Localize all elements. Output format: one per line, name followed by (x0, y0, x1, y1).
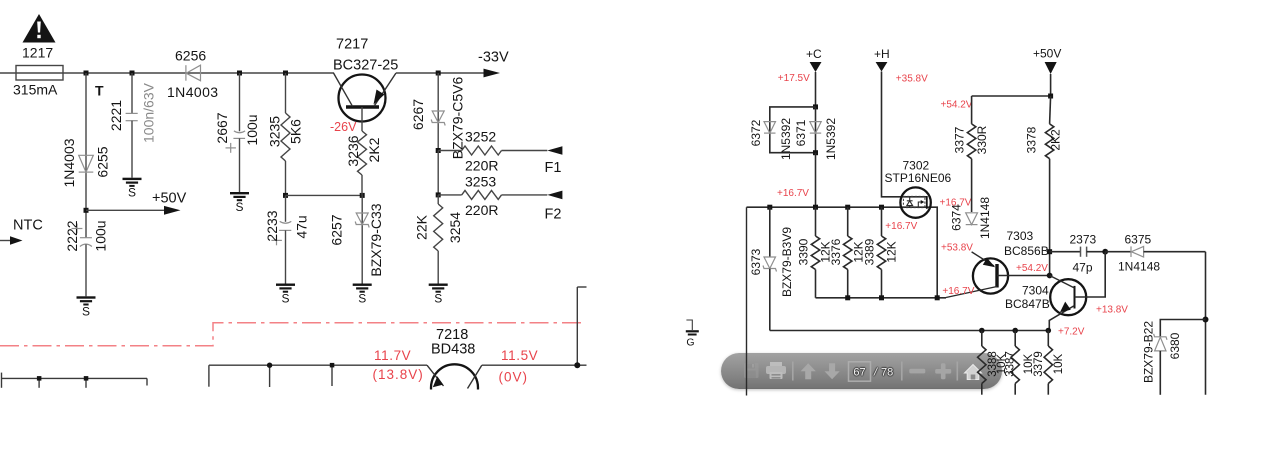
resistor 3378 2K2 (1050, 96, 1051, 124)
save icon (disabled) (744, 363, 759, 378)
wire +16.7V bus (747, 206, 927, 208)
resistor 3390 12K (815, 207, 817, 236)
svg-text:F2: F2 (545, 207, 562, 223)
svg-text:2222: 2222 (64, 220, 80, 251)
svg-text:S: S (358, 292, 366, 306)
svg-text:6374: 6374 (950, 204, 964, 231)
svg-text:22K: 22K (413, 214, 429, 240)
svg-text:-33V: -33V (478, 50, 509, 66)
svg-text:F1: F1 (545, 160, 562, 176)
diode 6375 1N4148 (1105, 251, 1131, 253)
wire +7.2V bus (770, 330, 1050, 332)
svg-text:3252: 3252 (465, 129, 496, 145)
capacitor 2222 100u (80, 237, 92, 239)
svg-text:3236: 3236 (345, 135, 361, 166)
capacitor 2373 47p (1047, 249, 1052, 254)
svg-text:3377: 3377 (953, 126, 967, 153)
svg-text:2233: 2233 (264, 210, 280, 241)
svg-text:220R: 220R (465, 158, 498, 174)
svg-text:100n/63V: 100n/63V (141, 82, 157, 143)
svg-text:2221: 2221 (108, 100, 124, 131)
separator (957, 362, 959, 381)
separator (901, 362, 903, 381)
svg-text:10K: 10K (1053, 353, 1065, 374)
svg-text:12K: 12K (885, 241, 899, 262)
svg-text:100u: 100u (92, 220, 108, 251)
svg-text:G: G (686, 337, 694, 349)
svg-text:330R: 330R (975, 125, 989, 154)
svg-text:+17.5V: +17.5V (778, 73, 810, 84)
print icon (766, 362, 786, 379)
ground S (3254) (429, 284, 448, 286)
svg-text:S: S (82, 304, 90, 318)
svg-text:S: S (281, 292, 289, 306)
node F1 wire (436, 148, 441, 153)
page down arrow (825, 363, 840, 379)
node: rail junctions (84, 71, 89, 76)
zener diode 6257 BZX79-C33 (361, 195, 363, 283)
svg-text:6372: 6372 (749, 119, 763, 146)
svg-text:3378: 3378 (1025, 126, 1039, 153)
wire +C to bus (815, 153, 817, 208)
ground S (2233) (276, 284, 295, 286)
svg-text:2K2: 2K2 (1049, 129, 1063, 151)
resistor 3388 10K (981, 331, 983, 347)
wire +54.2V (972, 95, 1051, 97)
svg-text:47p: 47p (1073, 261, 1093, 275)
svg-text:BZX79-C33: BZX79-C33 (368, 203, 384, 276)
svg-text:100u: 100u (244, 114, 260, 145)
svg-text:1217: 1217 (22, 45, 53, 61)
svg-text:1N4003: 1N4003 (61, 138, 77, 187)
svg-text:7304: 7304 (1022, 284, 1049, 298)
page number box (849, 362, 871, 381)
svg-text:11.5V: 11.5V (501, 348, 538, 363)
node +50V (84, 208, 89, 213)
wire 6255 branch (85, 73, 87, 238)
svg-text:BC856B: BC856B (1004, 244, 1049, 258)
svg-text:(0V): (0V) (499, 370, 529, 385)
wire 2222 to ground (85, 245, 87, 297)
svg-text:7217: 7217 (336, 37, 368, 53)
wire +16.7V lower node (816, 297, 947, 299)
svg-text:(13.8V): (13.8V) (373, 367, 424, 382)
svg-text:BZX79-B3V9: BZX79-B3V9 (780, 227, 794, 297)
diodes 6372/6371 1N5392 parallel (813, 104, 818, 109)
svg-text:+C: +C (806, 47, 822, 61)
wire 7218 left (209, 287, 587, 387)
capacitor 2667 100u (239, 73, 241, 131)
svg-text:7303: 7303 (1007, 229, 1034, 243)
svg-text:1N4148: 1N4148 (978, 197, 992, 239)
svg-text:S: S (434, 292, 442, 306)
svg-text:6371: 6371 (794, 119, 808, 146)
svg-text:1N5392: 1N5392 (824, 118, 838, 160)
home / acrobat icon (965, 365, 982, 380)
svg-text:11.7V: 11.7V (374, 348, 411, 363)
svg-text:+16.7V: +16.7V (777, 188, 809, 199)
node F2 wire (437, 151, 439, 195)
svg-text:3387: 3387 (1005, 351, 1017, 377)
resistor 3236 2K2 (361, 107, 363, 131)
zoom in (plus) (935, 369, 951, 374)
diode 6374 1N4148 (966, 213, 978, 225)
svg-text:-26V: -26V (330, 120, 357, 134)
wire 7303 base (997, 275, 1050, 277)
wire right drop (1205, 252, 1207, 395)
svg-text:NTC: NTC (13, 218, 43, 234)
PDF viewer floating toolbar (721, 353, 1002, 389)
svg-text:6255: 6255 (94, 146, 110, 177)
svg-text:2K2: 2K2 (366, 137, 382, 162)
svg-text:3390: 3390 (797, 238, 811, 265)
resistor 3376 12K (847, 207, 849, 236)
wire left drop (746, 207, 748, 395)
svg-text:+13.8V: +13.8V (1096, 305, 1128, 316)
svg-text:6267: 6267 (410, 99, 426, 130)
svg-text:1N5392: 1N5392 (779, 118, 793, 160)
warning symbol (23, 14, 56, 43)
svg-text:+H: +H (874, 47, 890, 61)
svg-text:+50V: +50V (152, 191, 187, 207)
resistor 3377 330R (971, 96, 973, 124)
svg-text:2373: 2373 (1070, 233, 1097, 247)
resistor 3379 10K (1047, 331, 1049, 347)
resistor 3387 10K (1014, 331, 1016, 347)
svg-text:6380: 6380 (1168, 332, 1182, 359)
resistor 3252 220R (462, 146, 502, 155)
svg-text:+35.8V: +35.8V (896, 74, 928, 85)
svg-text:+16.7V: +16.7V (885, 221, 917, 232)
ground G (686, 320, 692, 330)
svg-text:3376: 3376 (829, 238, 843, 265)
page up arrow (801, 363, 816, 379)
ground S (2222) (77, 296, 96, 298)
diode 6255 1N4003 (79, 155, 94, 172)
zener diode 6373 BZX79-B3V9 (769, 207, 771, 257)
ground S (6257) (353, 284, 372, 286)
svg-text:+50V: +50V (1033, 47, 1061, 61)
svg-text:BZX79-B22: BZX79-B22 (1142, 321, 1156, 383)
svg-text:3254: 3254 (447, 212, 463, 243)
svg-text:BC327-25: BC327-25 (333, 58, 398, 74)
svg-text:1N4148: 1N4148 (1118, 260, 1160, 274)
svg-text:T: T (95, 83, 104, 99)
svg-text:6373: 6373 (749, 248, 763, 275)
svg-text:3235: 3235 (266, 116, 282, 147)
svg-text:+7.2V: +7.2V (1058, 327, 1085, 338)
svg-text:220R: 220R (465, 202, 498, 218)
zoom out (minus) (909, 369, 925, 374)
separator (792, 362, 794, 381)
resistor 3235 5K6 (285, 73, 287, 113)
svg-text:+54.2V: +54.2V (941, 100, 973, 111)
node (283, 193, 288, 198)
svg-text:+16.7V: +16.7V (942, 286, 974, 297)
svg-text:1N4003: 1N4003 (167, 84, 218, 100)
svg-text:6375: 6375 (1125, 233, 1152, 247)
svg-text:S: S (235, 200, 243, 214)
wire to -33V (396, 72, 484, 74)
svg-text:6256: 6256 (175, 48, 206, 64)
capacitor 2233 47u (285, 195, 287, 221)
ground S (2221) (123, 178, 142, 180)
svg-text:2667: 2667 (214, 112, 230, 143)
resistor 3254 22K (437, 195, 439, 204)
wire node 3235/3236 (286, 194, 363, 196)
svg-text:47u: 47u (293, 215, 309, 238)
svg-text:+54.2V: +54.2V (1016, 263, 1048, 274)
7304 emitter (1049, 306, 1074, 331)
wire bottom-left bus (2, 373, 148, 388)
wire 7304 collector (1075, 252, 1106, 297)
svg-text:S: S (128, 186, 136, 200)
svg-text:6257: 6257 (328, 214, 344, 245)
svg-text:BZX79-C5V6: BZX79-C5V6 (449, 77, 465, 160)
capacitor 2221 100n/63V (131, 73, 133, 113)
svg-text:BD438: BD438 (431, 342, 475, 358)
svg-text:5K6: 5K6 (287, 119, 303, 144)
resistor 3389 12K (881, 207, 883, 236)
svg-text:315mA: 315mA (13, 82, 58, 98)
svg-text:BC847B: BC847B (1005, 297, 1050, 311)
svg-text:STP16NE06: STP16NE06 (885, 171, 952, 185)
svg-text:3379: 3379 (1033, 351, 1045, 377)
zener diode 6267 BZX79-C5V6 (437, 73, 439, 151)
red page-boundary dash-dot line (0, 323, 584, 346)
svg-text:3389: 3389 (863, 238, 877, 265)
svg-text:3253: 3253 (465, 174, 496, 190)
ground S (2667) (230, 192, 249, 194)
wire 7218 right (482, 364, 587, 366)
resistor 3253 220R (462, 190, 502, 199)
zener diode 6380 BZX79-B22 (1160, 320, 1205, 337)
svg-text:+53.8V: +53.8V (941, 243, 973, 254)
